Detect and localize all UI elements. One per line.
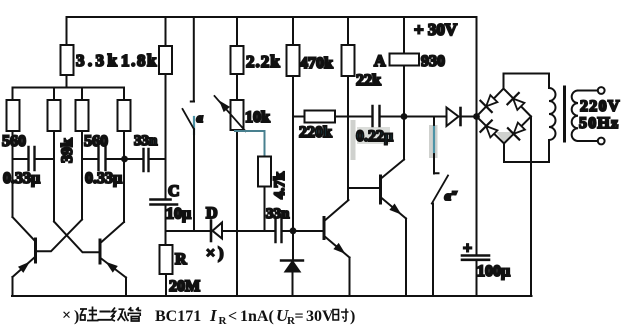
svg-text:): ) (74, 308, 79, 325)
svg-text:R: R (175, 251, 187, 268)
relay coil A 930 (390, 54, 420, 66)
svg-text:<: < (228, 308, 237, 325)
svg-text:1nA(: 1nA( (240, 308, 274, 325)
svg-text:): ) (350, 308, 355, 325)
svg-text:10μ: 10μ (166, 206, 191, 223)
svg-text:=: = (295, 308, 304, 325)
svg-text:470k: 470k (300, 55, 333, 72)
svg-text:22k: 22k (356, 72, 381, 89)
transistor Q3 (379, 176, 382, 203)
wire second rail (13, 87, 125, 89)
caption text (62, 306, 355, 327)
capacitor C 10u (151, 200, 178, 205)
svg-text:30V: 30V (306, 308, 334, 325)
svg-text:D: D (206, 205, 218, 222)
wire relay column (403, 17, 405, 117)
svg-text:×: × (62, 307, 71, 324)
switch a'' (434, 117, 439, 174)
svg-text:+ 30V: + 30V (414, 20, 458, 39)
svg-text:A: A (374, 53, 386, 70)
hanzi gui (silicon) (80, 307, 99, 322)
capacitor 0.33u (second) (82, 158, 124, 160)
svg-text:0.33μ: 0.33μ (3, 170, 40, 187)
svg-text:a: a (197, 110, 204, 125)
svg-text:R: R (219, 315, 228, 327)
transistor T1 (left multivibrator) (34, 239, 37, 262)
wire 2.2k column (236, 17, 238, 100)
hanzi ji (grade) (112, 308, 129, 322)
diode D (210, 221, 213, 242)
svg-text:2.2k: 2.2k (246, 52, 281, 71)
scan watermark grey blobs (351, 120, 514, 160)
wire mid row y=116.5 (293, 116, 477, 118)
wire 470k column (292, 17, 294, 230)
wire top +30V rail (67, 16, 477, 18)
svg-text:33n: 33n (266, 206, 290, 222)
zener diode (292, 231, 294, 260)
potentiometer 10k (231, 100, 244, 130)
svg-text:1.8k: 1.8k (121, 51, 158, 70)
resistor 560 (second) (76, 100, 89, 131)
transistor T2 (right multivibrator) (99, 240, 102, 263)
capacitor 0.33u (left) (13, 158, 55, 160)
resistor 470k (287, 45, 300, 76)
bridge rectifier outline (477, 89, 532, 144)
diode D2 (series to bridge) (447, 108, 459, 127)
capacitor 33n (left one) (124, 158, 166, 160)
transistor Q2 (323, 218, 326, 239)
wire column 560-2 (81, 88, 83, 220)
capacitor 0.22u (373, 106, 380, 126)
svg-text:a″: a″ (445, 188, 459, 203)
wire column 39k (53, 88, 55, 222)
capacitor 100u electrolytic (462, 256, 489, 260)
wire column 560-1 (12, 88, 14, 218)
resistor 4.7k (258, 157, 271, 187)
resistor 560 (left) (7, 100, 20, 131)
bridge diode bottom-left (480, 120, 499, 139)
svg-text:BC171: BC171 (155, 308, 201, 325)
svg-text:3.3k: 3.3k (76, 51, 120, 70)
wire 3.3k column (66, 17, 68, 88)
bridge diode top-left (480, 93, 499, 112)
hanzi shi (time) (333, 309, 349, 322)
svg-text:33n: 33n (134, 133, 158, 149)
wire pot jog to 4.7k (teal) (235, 131, 265, 157)
svg-text:50Hz: 50Hz (579, 115, 619, 132)
svg-text:4.7k: 4.7k (272, 171, 288, 199)
node junction dot 404,116.5 (401, 113, 408, 120)
resistor R 3.3k (61, 45, 74, 75)
wire 22k column (347, 17, 349, 200)
resistor 2.2k (231, 46, 244, 74)
bridge diode bottom-right (508, 120, 527, 139)
wire right column (476, 17, 478, 255)
resistor 220k (305, 111, 336, 123)
wire signal row y=231 (166, 230, 324, 232)
svg-text:20M: 20M (169, 278, 200, 295)
transformer primary winding (548, 74, 550, 89)
transformer secondary winding (578, 90, 598, 92)
svg-text:100μ: 100μ (477, 263, 510, 280)
wire bottom ground rail (12, 295, 532, 297)
node junction dot at 124,159 (121, 156, 128, 163)
svg-text:×): ×) (206, 245, 226, 262)
svg-text:220k: 220k (299, 124, 332, 141)
svg-text:39k: 39k (59, 138, 76, 163)
transformer core (563, 87, 566, 141)
wire 1.8k column (165, 17, 167, 200)
resistor R 20M (160, 245, 173, 274)
svg-text:930: 930 (421, 53, 445, 70)
resistor (4th unlabeled) (118, 100, 131, 131)
node junction dot 293,231 (290, 227, 297, 234)
wire column 4th resistor (123, 88, 125, 223)
resistor 1.8k (159, 46, 172, 74)
svg-text:0.33μ: 0.33μ (85, 170, 122, 187)
resistor 39k (48, 100, 61, 131)
resistor 22k (342, 45, 355, 76)
hanzi guan (tube) (128, 307, 142, 321)
terminal top (598, 87, 605, 94)
svg-text:+: + (463, 240, 472, 257)
svg-text:10k: 10k (245, 109, 270, 126)
svg-text:560: 560 (2, 133, 26, 150)
bridge diode top-right (507, 93, 526, 112)
switch a (191, 17, 194, 102)
terminal bottom (598, 138, 605, 145)
svg-text:0.22μ: 0.22μ (356, 128, 393, 145)
svg-text:C: C (168, 183, 180, 200)
capacitor 33n (on signal row) (276, 218, 282, 242)
hanzi er (two) (98, 312, 112, 320)
node junction dot 476.5,116.5 (473, 113, 480, 120)
svg-text:220V: 220V (580, 98, 621, 115)
